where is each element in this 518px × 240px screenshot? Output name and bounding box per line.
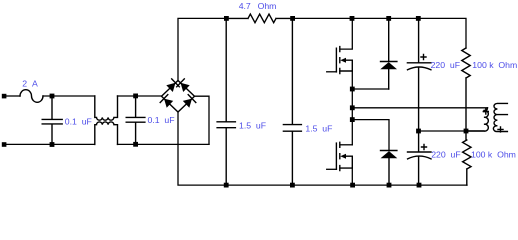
capacitor C5 220 uF plus sign <box>421 55 426 60</box>
junction at C2 bottom <box>133 142 138 147</box>
wire mid-low rail C5/R2/primary bottom <box>419 130 485 132</box>
bridge diode bottom-right triangle <box>183 99 192 108</box>
wire Q2 drain <box>340 144 352 146</box>
svg-text:2 A: 2 A <box>22 79 38 89</box>
wire switch node vertical <box>351 71 353 145</box>
junction C3 bottom <box>224 183 229 188</box>
resistor R2 100 k Ohm <box>462 48 470 131</box>
bridge diode top-left bar <box>172 79 180 87</box>
transistor Q1 body arrow <box>340 58 346 63</box>
diode D5 <box>381 18 397 89</box>
transformer T1 secondary polarity mark <box>498 127 503 132</box>
junction R1 left <box>224 16 229 21</box>
bridge rectifier D1-D4 diamond <box>162 81 195 113</box>
transistor Q2 body/source connection <box>340 156 352 168</box>
junction D6 cathode branch <box>350 117 355 122</box>
wire fuse to node (top rail AC) <box>43 95 95 97</box>
fuse F1 <box>20 90 43 103</box>
capacitor C5 220 uF <box>407 18 431 131</box>
svg-text:0.1 uF: 0.1 uF <box>65 116 92 126</box>
transformer T1 primary polarity mark <box>483 109 488 114</box>
junction at C2 top <box>133 94 138 99</box>
wire bottom rail choke to C2 and to bridge return <box>118 143 210 145</box>
transistor Q2 gate plate <box>335 143 337 169</box>
bridge diode top-right bar <box>177 79 185 87</box>
svg-text:1.5 uF: 1.5 uF <box>239 120 266 130</box>
junction Q1 source / D5 anode <box>350 87 355 92</box>
junction C5 bottom <box>416 129 421 134</box>
junction R1 right <box>290 16 295 21</box>
wire Q2 gate lead <box>327 168 337 170</box>
capacitor C2 0.1 uF <box>126 96 145 144</box>
wire D5 anode to switch node <box>352 88 388 90</box>
junction C6 bottom at DC- <box>417 183 422 188</box>
capacitor C4 1.5 uF <box>283 18 301 185</box>
svg-text:4.7: 4.7 <box>239 1 251 11</box>
diode D6 triangle <box>381 151 398 158</box>
junction D5 cathode at DC+ <box>386 16 391 21</box>
transistor Q2 channel dashes <box>339 142 341 170</box>
choke L1 top winding <box>95 96 118 120</box>
wire D6 cathode branch <box>352 120 389 151</box>
wire Q1 drain <box>340 18 352 49</box>
capacitor C3 1.5 uF <box>217 18 235 185</box>
resistor R3 100 k Ohm <box>463 131 471 185</box>
diode D5 triangle <box>380 62 397 69</box>
diode D6 <box>381 151 397 186</box>
bridge diode bottom-left triangle <box>164 99 173 108</box>
bridge diode top-right triangle <box>181 83 190 92</box>
terminal left bottom <box>2 142 7 147</box>
wire bridge right vertex return <box>195 96 210 144</box>
wire Q2 source to DC- <box>351 168 353 185</box>
bridge diode bottom-right bar <box>188 95 196 103</box>
svg-text:0.1 uF: 0.1 uF <box>148 115 175 125</box>
wire Q1 gate lead <box>327 71 337 73</box>
wire choke to bridge (top) <box>118 95 162 97</box>
junction Q1 drain at DC+ <box>350 16 355 21</box>
capacitor C5 curved plate <box>408 67 431 70</box>
svg-text:Ohm: Ohm <box>258 1 277 11</box>
terminal left top <box>2 94 7 99</box>
junction at C1 top <box>50 94 55 99</box>
transistor Q1 gate plate <box>335 48 337 72</box>
transformer T1 primary winding <box>466 108 488 131</box>
wire from left-top terminal to fuse <box>6 95 20 97</box>
svg-text:100 k Ohm: 100 k Ohm <box>472 60 517 70</box>
junction C4 bottom <box>290 183 295 188</box>
junction R2 bottom <box>464 129 469 134</box>
capacitor C6 220 uF plus sign <box>422 145 427 150</box>
resistor R1 4.7 Ohm <box>229 14 290 23</box>
wire bottom AC rail <box>6 143 95 145</box>
svg-text:220 uF: 220 uF <box>431 60 460 70</box>
transistor Q2 body arrow <box>340 154 346 159</box>
wire mid rail to transformer primary <box>352 107 487 109</box>
capacitor C1 0.1 uF <box>42 96 62 145</box>
wire bridge bottom to DC- rail <box>178 112 467 185</box>
capacitor C6 220 uF <box>408 131 432 185</box>
capacitor C6 curved plate <box>408 156 431 159</box>
transformer T1 secondary winding <box>493 103 507 131</box>
choke L1 bottom winding <box>95 122 118 144</box>
svg-text:1.5 uF: 1.5 uF <box>305 124 332 134</box>
svg-text:220 uF: 220 uF <box>431 149 460 159</box>
transistor Q1 body/source connection <box>340 60 352 71</box>
bridge diode top-left triangle <box>166 83 175 92</box>
wire bridge top to DC+ rail <box>178 18 226 80</box>
transistor Q1 channel dashes <box>339 47 341 74</box>
svg-text:100 k Ohm: 100 k Ohm <box>471 149 516 159</box>
junction Q2 source at DC- <box>350 183 355 188</box>
bridge diode bottom-left bar <box>160 95 168 103</box>
junction D6 anode at DC- <box>387 183 392 188</box>
junction switch node / mid rail <box>350 105 355 110</box>
junction at C1 bottom <box>50 142 55 147</box>
wire DC+ rail <box>295 18 466 48</box>
junction C5 top at DC+ <box>416 16 421 21</box>
